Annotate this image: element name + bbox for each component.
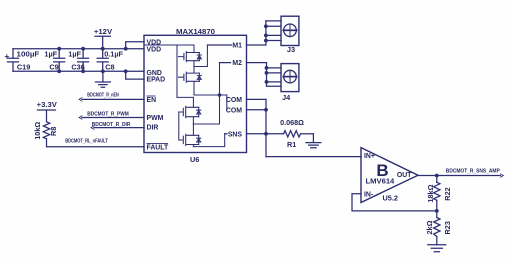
svg-text:C19: C19	[17, 63, 30, 72]
junction top rail C36	[81, 47, 85, 51]
svg-text:0.1µF: 0.1µF	[104, 50, 123, 59]
ground below R23	[428, 245, 446, 252]
svg-text:M2: M2	[232, 60, 242, 67]
svg-text:C36: C36	[71, 63, 84, 72]
svg-text:SNS: SNS	[228, 131, 243, 138]
svg-text:IN+: IN+	[364, 153, 375, 160]
svg-text:DIR: DIR	[147, 124, 159, 131]
junction COM2	[264, 108, 268, 112]
svg-text:C8: C8	[105, 63, 114, 72]
op-amp U5.2	[361, 148, 418, 203]
svg-text:R1: R1	[287, 140, 296, 149]
svg-text:R8: R8	[49, 127, 58, 136]
junction J4 stub 2	[265, 71, 269, 75]
wire COM2	[247, 109, 267, 111]
svg-text:J3: J3	[287, 45, 295, 54]
svg-text:0.068Ω: 0.068Ω	[280, 118, 304, 127]
svg-text:1µF: 1µF	[44, 50, 57, 59]
wire internal left bus	[176, 45, 178, 97]
svg-text:100µF: 100µF	[17, 50, 40, 59]
wire COM1	[247, 98, 267, 100]
wire OUT	[418, 175, 437, 177]
junction J3 stub 4	[264, 39, 268, 43]
svg-text:COM: COM	[226, 97, 242, 104]
IC U6 MAX14870 body	[144, 35, 247, 152]
wire R8 to FAULT	[47, 139, 145, 147]
connector J3	[281, 16, 299, 45]
svg-text:J4: J4	[282, 93, 291, 102]
wire EPAD branch	[126, 71, 144, 79]
wire GND bottom rail	[13, 70, 144, 72]
pin FAULT overbar	[147, 142, 169, 144]
port BDCMOT_R_nEN	[79, 98, 82, 101]
transistor Q4	[179, 112, 201, 147]
resistor R22	[434, 176, 440, 211]
svg-text:COM: COM	[226, 107, 242, 114]
transistor Q2	[179, 67, 202, 96]
svg-text:18kΩ: 18kΩ	[426, 184, 435, 202]
svg-text:OUT: OUT	[397, 172, 412, 179]
svg-text:1µF: 1µF	[68, 50, 81, 59]
junction bottom rail C36	[81, 69, 85, 73]
wire M1	[207, 44, 266, 46]
power +12V	[95, 36, 110, 49]
wire IN+	[266, 156, 361, 158]
ground below C8	[95, 71, 110, 87]
wire R1 left lead	[266, 133, 284, 135]
svg-text:FAULT: FAULT	[147, 144, 169, 151]
junction Q2 source M2 cross	[218, 93, 222, 97]
wire J4 stubs	[267, 68, 282, 86]
svg-text:BDCMOT_R_SNS_AMP: BDCMOT_R_SNS_AMP	[446, 168, 500, 174]
wire M2 tap	[193, 63, 219, 124]
junction bottom rail C8	[101, 69, 105, 73]
svg-text:R23: R23	[443, 221, 452, 234]
ground right of R1	[306, 134, 321, 148]
wire EN	[82, 98, 144, 100]
wire PWM	[82, 117, 144, 119]
port BDCMOT_R_DIR	[91, 126, 94, 129]
wire M2	[220, 62, 267, 64]
port BDCMOT_R_PWM	[79, 116, 82, 119]
pin EN overbar	[147, 95, 156, 97]
wire COM/SNS rail	[265, 99, 267, 156]
svg-text:+12V: +12V	[94, 27, 112, 36]
svg-text:+: +	[5, 52, 10, 61]
svg-text:VDD: VDD	[147, 39, 162, 46]
resistor R1	[284, 131, 301, 137]
junction J4 stub 3	[265, 80, 269, 84]
junction top rail C8	[101, 47, 105, 51]
wire IN- feedback	[352, 194, 437, 211]
wire DIR	[94, 127, 144, 129]
junction bottom rail EPAD branch	[124, 69, 128, 73]
wire BDCMOT_R_SNS_AMP	[437, 175, 501, 177]
svg-text:10kΩ: 10kΩ	[33, 122, 42, 140]
wire internal VDD	[144, 44, 194, 46]
svg-text:BDCMOT_R_DIR: BDCMOT_R_DIR	[92, 122, 131, 128]
wire Q4 source to SNS	[193, 134, 224, 147]
wire COM bus	[226, 95, 228, 110]
svg-text:IN-: IN-	[364, 191, 374, 198]
wire J3 stubs	[266, 21, 281, 41]
svg-text:EPAD: EPAD	[147, 77, 166, 84]
svg-text:MAX14870: MAX14870	[176, 27, 215, 36]
port BDCMOT_R_SNS_AMP	[501, 174, 504, 177]
resistor R8	[43, 122, 49, 139]
wire SNS	[225, 133, 266, 135]
capacitor C19	[8, 49, 19, 72]
wire Q2 source to COM	[194, 94, 227, 96]
power +3.3V	[38, 110, 56, 122]
wire VDD1 branch	[126, 42, 144, 49]
svg-text:BDCMOT_RL_nFAULT: BDCMOT_RL_nFAULT	[65, 139, 108, 145]
resistor R23	[434, 211, 440, 245]
junction top rail C9	[57, 47, 61, 51]
connector J4	[281, 64, 299, 92]
transistor Q3	[179, 97, 201, 124]
wire R1 right lead	[301, 133, 314, 135]
svg-text:VDD: VDD	[147, 47, 162, 54]
svg-text:PWM: PWM	[147, 115, 164, 122]
svg-text:R22: R22	[443, 187, 452, 200]
svg-text:BDCMOT_R_PWM: BDCMOT_R_PWM	[87, 111, 129, 117]
junction J3 stub 3	[264, 34, 268, 38]
svg-text:B: B	[376, 161, 388, 180]
junction top rail VDD branch	[124, 47, 128, 51]
wire internal Q3 drain feed	[177, 96, 193, 98]
junction SNS R1	[264, 132, 268, 136]
wire J3 rail	[265, 21, 267, 45]
svg-text:+3.3V: +3.3V	[37, 100, 57, 109]
svg-text:C9: C9	[49, 63, 58, 72]
svg-text:U6: U6	[190, 155, 199, 164]
capacitor C9	[54, 49, 65, 72]
svg-text:U5.2: U5.2	[383, 194, 398, 203]
junction OUT R22	[435, 174, 439, 178]
junction bottom rail C9	[57, 69, 61, 73]
junction J3 stub 2	[264, 24, 268, 28]
wire M1 tap	[194, 45, 207, 67]
capacitor C36	[78, 49, 89, 72]
capacitor C8	[97, 49, 108, 72]
wire VDD top rail	[13, 48, 144, 50]
wire J4 rail	[266, 63, 268, 87]
svg-text:BDCMOT_R_nEN: BDCMOT_R_nEN	[87, 92, 119, 98]
svg-text:M1: M1	[232, 43, 242, 50]
junction R22 R23 feedback	[435, 209, 439, 213]
junction J4 stub 1	[265, 66, 269, 70]
svg-text:EN: EN	[147, 97, 157, 104]
svg-text:2kΩ: 2kΩ	[425, 220, 434, 234]
transistor Q1	[179, 45, 202, 67]
